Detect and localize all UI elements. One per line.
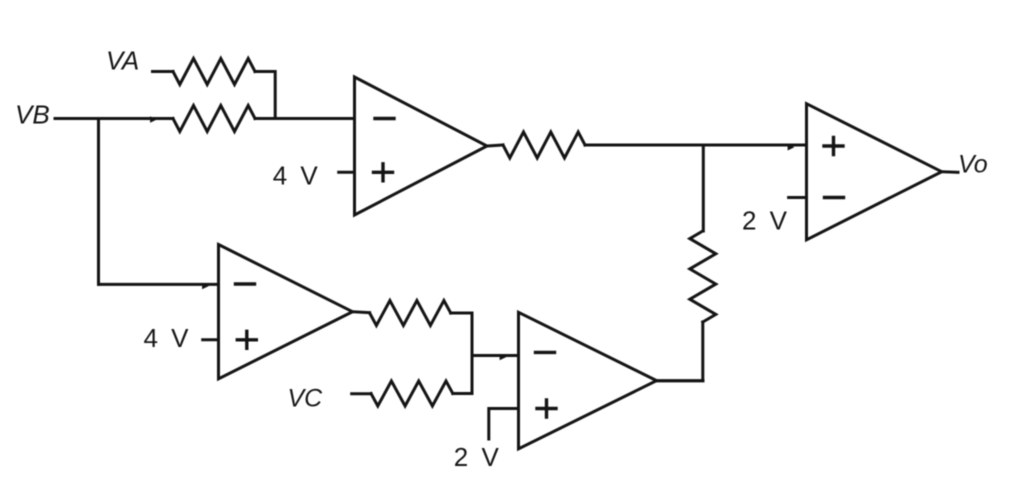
svg-text:VA: VA	[106, 45, 139, 75]
wire VB branch to U3 inverting input	[99, 283, 219, 286]
svg-text:4 V: 4 V	[273, 161, 321, 191]
wire 2V stub to U2 inverting input	[789, 196, 807, 199]
wire node down to R6	[702, 145, 705, 231]
U4 plus sign	[537, 400, 556, 417]
wire R1 output to inverting node	[255, 72, 275, 119]
op-amp U3	[219, 245, 353, 379]
wire U4 output lead	[657, 379, 703, 382]
junction arrow U4 input	[500, 354, 507, 360]
U3 minus sign	[236, 282, 255, 285]
U3 plus sign	[237, 331, 256, 348]
wire VB down branch	[97, 119, 100, 285]
wire U3 output lead	[353, 312, 370, 313]
U1 minus sign	[375, 117, 394, 120]
U4 minus sign	[536, 351, 555, 354]
svg-text:4 V: 4 V	[144, 323, 192, 353]
svg-text:VB: VB	[15, 99, 50, 129]
op-amp U2	[807, 104, 942, 240]
resistor R6 (vertical feedback)	[690, 231, 716, 322]
wire R4 to summing node	[451, 313, 472, 356]
resistor R4 (U3 output)	[370, 301, 451, 326]
wire VB lead	[55, 117, 173, 120]
wire VA lead	[153, 70, 174, 73]
svg-text:2 V: 2 V	[742, 206, 790, 236]
resistor R5 (VC input resistor)	[371, 381, 453, 406]
wire R2 to U1 inverting input	[255, 117, 355, 120]
wire R3 to U2 non-inverting input	[585, 144, 807, 147]
resistor R1 (VA input resistor)	[173, 59, 255, 85]
svg-text:2 V: 2 V	[454, 442, 502, 472]
junction feedback node	[788, 144, 795, 150]
resistor R2 (VB input resistor)	[173, 106, 255, 132]
wire 2V L-stub to U4 plus input	[489, 409, 519, 440]
U1 plus sign	[374, 164, 393, 181]
wire U1 output lead	[487, 145, 503, 146]
svg-text:VC: VC	[288, 385, 324, 413]
wire 4V stub to U3 plus input	[203, 338, 219, 341]
wire summing node to U4 inverting input	[472, 354, 519, 357]
resistor R3 (U1 output)	[503, 132, 585, 158]
svg-text:Vo: Vo	[958, 151, 988, 179]
wire U2 output lead	[942, 170, 958, 174]
wire VC lead	[352, 392, 371, 395]
junction arrow U3 input	[202, 283, 209, 289]
wire 4V stub to U1 plus input	[339, 171, 355, 174]
wire R5 up to summing node	[453, 356, 472, 394]
op-amp U1	[355, 77, 488, 215]
U2 plus sign	[824, 138, 843, 155]
U2 minus sign	[825, 196, 844, 199]
op-amp U4	[519, 312, 657, 449]
wire R6 to U4 output	[657, 322, 703, 381]
junction VB node	[150, 116, 157, 122]
